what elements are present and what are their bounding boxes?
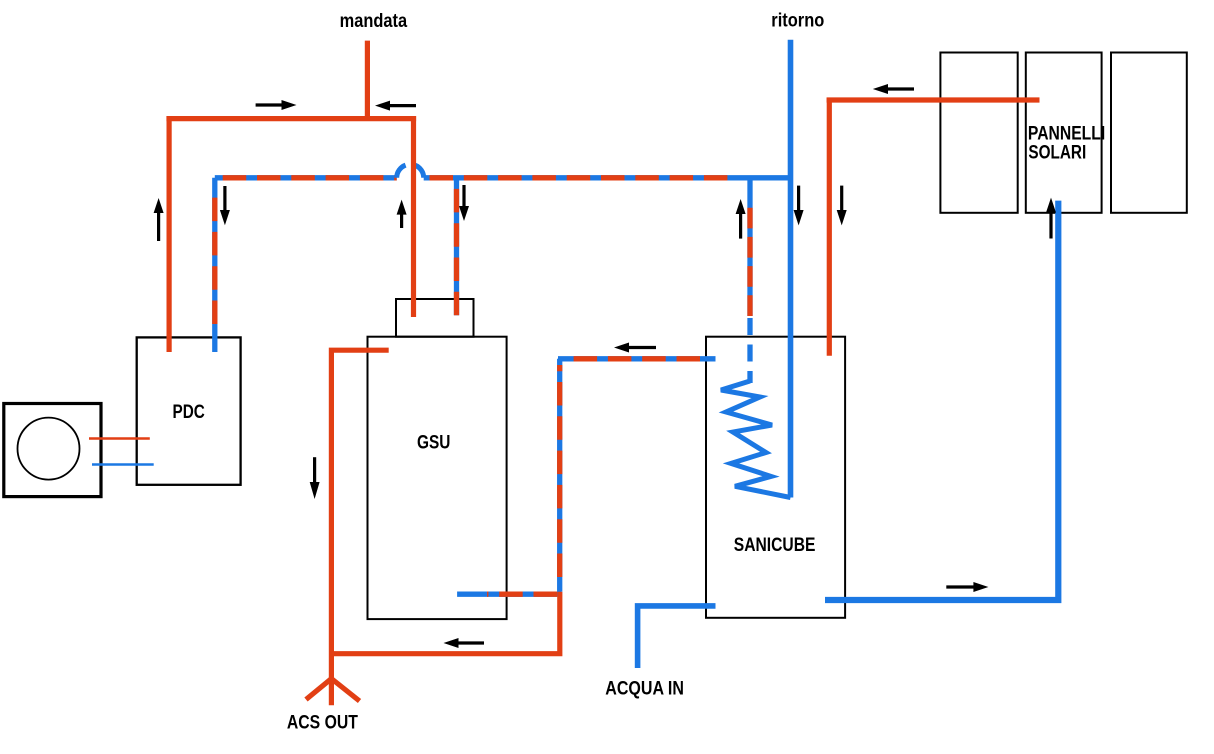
svg-text:SOLARI: SOLARI: [1028, 142, 1086, 163]
svg-text:ritorno: ritorno: [771, 11, 824, 32]
svg-text:ACS OUT: ACS OUT: [287, 712, 358, 733]
svg-text:GSU: GSU: [417, 433, 450, 454]
svg-text:mandata: mandata: [340, 11, 408, 32]
svg-text:PDC: PDC: [173, 402, 206, 423]
svg-text:ACQUA IN: ACQUA IN: [605, 679, 684, 700]
svg-text:SANICUBE: SANICUBE: [734, 535, 816, 556]
svg-text:PANNELLI: PANNELLI: [1028, 123, 1105, 144]
